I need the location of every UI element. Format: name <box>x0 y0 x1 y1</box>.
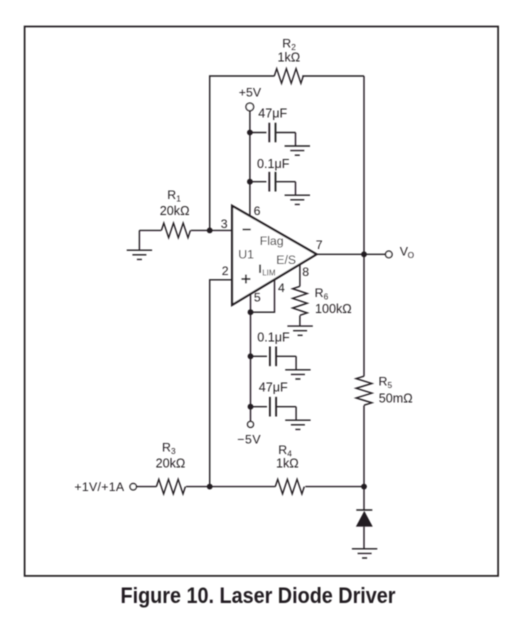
svg-text:U1: U1 <box>238 247 254 261</box>
svg-text:20kΩ: 20kΩ <box>160 204 190 218</box>
svg-text:R: R <box>278 443 287 457</box>
svg-text:50mΩ: 50mΩ <box>379 391 413 405</box>
svg-text:5: 5 <box>254 290 261 304</box>
svg-text:R: R <box>162 441 171 455</box>
svg-text:E/S: E/S <box>276 253 296 267</box>
svg-text:3: 3 <box>221 217 228 231</box>
svg-text:Flag: Flag <box>260 234 284 248</box>
svg-text:Figure 10. Laser Diode Driver: Figure 10. Laser Diode Driver <box>121 583 396 608</box>
svg-text:2: 2 <box>222 264 229 278</box>
svg-text:+5V: +5V <box>239 86 262 100</box>
svg-text:4: 4 <box>278 281 285 295</box>
svg-text:R: R <box>282 36 291 50</box>
svg-text:47μF: 47μF <box>259 381 288 395</box>
svg-text:47μF: 47μF <box>258 107 287 121</box>
svg-text:1kΩ: 1kΩ <box>278 51 301 65</box>
svg-text:7: 7 <box>316 238 323 252</box>
svg-text:3: 3 <box>171 446 176 456</box>
svg-text:R: R <box>379 374 388 388</box>
svg-text:0.1μF: 0.1μF <box>257 157 290 171</box>
svg-text:8: 8 <box>302 265 309 279</box>
svg-text:6: 6 <box>254 204 261 218</box>
svg-text:5: 5 <box>388 380 393 390</box>
svg-text:R: R <box>315 286 324 300</box>
svg-text:100kΩ: 100kΩ <box>315 302 352 316</box>
svg-text:6: 6 <box>324 292 329 302</box>
svg-text:1: 1 <box>176 194 181 204</box>
svg-text:1kΩ: 1kΩ <box>276 457 299 471</box>
svg-text:R: R <box>167 188 176 202</box>
svg-text:+1V/+1A: +1V/+1A <box>74 480 124 494</box>
svg-text:−5V: −5V <box>237 433 261 447</box>
svg-text:LIM: LIM <box>262 268 276 277</box>
svg-text:O: O <box>408 250 415 260</box>
svg-text:20kΩ: 20kΩ <box>156 457 186 471</box>
svg-text:0.1μF: 0.1μF <box>257 330 290 344</box>
